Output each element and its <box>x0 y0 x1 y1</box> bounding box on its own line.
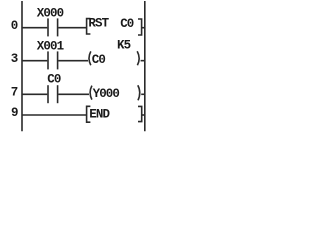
svg-text:C0: C0 <box>120 17 134 31</box>
svg-text:C0: C0 <box>92 53 106 67</box>
coil Y000 left paren <box>90 86 92 100</box>
wire rung4 left rail to END bracket <box>22 114 87 116</box>
wire rung3 contact C0 to coil Y000 <box>58 93 89 95</box>
RST instruction right bracket <box>138 19 142 35</box>
contact X001 right bar <box>57 51 59 69</box>
svg-text:X001: X001 <box>37 39 64 53</box>
svg-text:C0: C0 <box>47 73 61 87</box>
right power rail <box>144 1 146 131</box>
svg-text:7: 7 <box>11 86 18 100</box>
svg-text:END: END <box>89 108 110 122</box>
wire rung2 coil C0 to right rail <box>141 60 145 62</box>
svg-text:K5: K5 <box>117 39 131 53</box>
wire rung1 RST bracket to right rail <box>142 27 145 29</box>
END instruction left bracket <box>87 106 91 122</box>
END instruction right bracket <box>138 106 142 121</box>
RST instruction left bracket <box>87 19 91 34</box>
wire rung3 coil Y000 to right rail <box>141 93 145 95</box>
contact C0 right bar <box>57 85 59 103</box>
contact X000 right bar <box>57 18 59 36</box>
contact X000 left bar <box>47 18 49 36</box>
wire rung1 left rail to contact X000 <box>22 27 47 29</box>
svg-text:Y000: Y000 <box>93 87 120 101</box>
svg-text:3: 3 <box>11 52 18 66</box>
wire rung1 contact X000 to RST bracket <box>58 27 86 29</box>
left power rail <box>21 1 23 131</box>
coil C0 right paren <box>137 51 139 65</box>
svg-text:9: 9 <box>11 106 18 120</box>
wire rung2 left rail to contact X001 <box>22 60 47 62</box>
wire rung4 END bracket to right rail <box>142 114 145 116</box>
coil C0 left paren <box>89 51 91 65</box>
wire rung3 left rail to contact C0 <box>22 93 47 95</box>
coil Y000 right paren <box>138 85 140 100</box>
svg-text:RST: RST <box>88 17 109 31</box>
wire rung2 contact X001 to coil C0 <box>58 60 88 62</box>
svg-text:0: 0 <box>11 19 18 33</box>
contact C0 left bar <box>47 85 49 103</box>
contact X001 left bar <box>47 51 49 69</box>
svg-text:X000: X000 <box>37 6 64 20</box>
